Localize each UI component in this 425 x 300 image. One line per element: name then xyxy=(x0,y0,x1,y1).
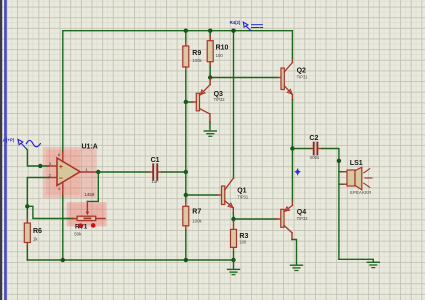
label Q1 xyxy=(237,187,246,194)
svg-text:SPEAKER: SPEAKER xyxy=(350,190,372,195)
label R7 xyxy=(192,209,201,216)
blue marker star on output node xyxy=(294,168,301,176)
resistor R10 xyxy=(207,41,213,62)
transistor Q1 body xyxy=(222,178,234,213)
svg-text:100k: 100k xyxy=(192,58,202,63)
wire R10 bottom to junction xyxy=(209,62,211,78)
label Q3 xyxy=(214,91,223,98)
wire rail right corner down to Q2 collector xyxy=(291,31,293,58)
svg-text:1uF: 1uF xyxy=(151,179,159,184)
wire R3 top stub xyxy=(233,219,235,229)
svg-text:C1: C1 xyxy=(151,157,160,164)
svg-text:100k: 100k xyxy=(192,218,202,223)
label R9 value 100k xyxy=(192,58,202,63)
wire Q3 base stub xyxy=(186,101,197,103)
ground under Q4 xyxy=(291,265,303,270)
ground under LS1 xyxy=(367,262,379,267)
transistor Q4 body xyxy=(281,201,293,240)
svg-text:TIP32: TIP32 xyxy=(297,216,309,221)
wire V+ drop from rail to U1 pin 8 xyxy=(62,31,64,153)
svg-text:2: 2 xyxy=(49,172,51,177)
wire Q3 collector to ground xyxy=(209,122,211,130)
wire R9 top stub xyxy=(185,31,187,46)
resistor R3 xyxy=(231,229,237,247)
wire feedback down to RV1 wiper xyxy=(86,172,99,215)
label Q4 xyxy=(297,209,306,216)
svg-text:R4(2): R4(2) xyxy=(230,20,241,25)
selection highlight around op-amp U1:A xyxy=(43,147,97,198)
junction dot feedback/RV1 branch xyxy=(25,204,29,208)
label LS1 xyxy=(350,160,363,167)
svg-text:Q4: Q4 xyxy=(297,209,306,216)
label Q3 value TIP32 xyxy=(214,97,226,102)
label Q2 value TIP31 xyxy=(297,74,309,79)
svg-text:500u: 500u xyxy=(310,155,319,160)
svg-text:R6: R6 xyxy=(33,228,42,235)
svg-text:1: 1 xyxy=(85,167,87,172)
wire R10 top stub xyxy=(209,31,211,41)
svg-text:100: 100 xyxy=(216,53,224,58)
label U1 pin 1 xyxy=(85,167,87,172)
wire R6 bottom to rail xyxy=(26,243,28,261)
junction dot rail/pin4 xyxy=(61,258,65,262)
wire feedback node jog to RV1 left terminal xyxy=(27,206,77,218)
label R6 xyxy=(33,228,42,235)
junction dot R10/Q3 emitter/Q2 base xyxy=(208,75,212,79)
speaker LS1 xyxy=(347,167,372,190)
svg-text:TIP31: TIP31 xyxy=(297,74,309,79)
svg-text:1458: 1458 xyxy=(84,192,95,197)
wire mid vertical Q3base to R7 xyxy=(185,102,187,206)
junction dot output node / C2 xyxy=(290,146,294,150)
label R3 value 100 xyxy=(239,239,247,244)
wire junction to Q3 emitter xyxy=(209,78,211,85)
svg-text:TIP31: TIP31 xyxy=(237,194,249,199)
wire Q4 collector to ground xyxy=(292,240,297,265)
wire speaker branch to ground xyxy=(339,259,373,261)
wire R9 bottom to Q3 base node xyxy=(185,67,187,102)
wire C1 right to mid node xyxy=(162,171,186,173)
junction dot Q1 emitter / R3 / Q4 base xyxy=(231,217,235,221)
svg-text:R9: R9 xyxy=(192,50,201,57)
wire U1 pin 2 feedback net xyxy=(27,178,57,224)
label Q1 value TIP31 xyxy=(237,194,249,199)
junction dot C1/mid vertical xyxy=(184,170,188,174)
ground under R3 xyxy=(228,260,240,275)
svg-text:R7: R7 xyxy=(192,209,201,216)
svg-text:3: 3 xyxy=(49,161,51,166)
potentiometer RV1 xyxy=(77,216,105,220)
svg-text:LS1: LS1 xyxy=(350,160,363,167)
junction dot rail/R9 xyxy=(184,29,188,33)
svg-text:C2: C2 xyxy=(309,135,318,142)
svg-text:−: − xyxy=(59,173,64,182)
input generator symbol xyxy=(0,138,40,149)
label U1 value 1458 xyxy=(84,192,95,197)
svg-text:Q2: Q2 xyxy=(297,67,306,74)
wire bottom ground rail xyxy=(27,259,233,261)
label U1 pin 8 xyxy=(58,152,60,157)
svg-text:TIP32: TIP32 xyxy=(214,97,226,102)
label U1 pin 2 xyxy=(49,172,51,177)
junction dot output pin / feedback xyxy=(96,170,100,174)
ground under Q3 xyxy=(204,131,216,136)
resistor R7 xyxy=(183,206,189,226)
junction dot R9/Q3 base xyxy=(184,100,188,104)
junction dot rail/probe xyxy=(231,29,235,33)
svg-text:8: 8 xyxy=(58,152,60,157)
junction dot speaker branch xyxy=(337,159,341,163)
junction dot Q1 base / R7 xyxy=(184,193,188,197)
wire rail to Q1 collector (long vertical) xyxy=(233,31,235,179)
label C2 value 500u xyxy=(310,155,319,160)
wire R3 bottom to rail xyxy=(233,247,235,260)
capacitor C2 xyxy=(314,143,322,155)
op-amp U1:A xyxy=(57,153,98,197)
junction dot rail/R10 xyxy=(208,29,212,33)
wire input source to U1 pin 3 xyxy=(27,149,58,166)
label R9 xyxy=(192,50,201,57)
svg-text:1A(+P): 1A(+P) xyxy=(0,138,14,143)
label R7 value 100k xyxy=(192,218,202,223)
svg-text:Q1: Q1 xyxy=(237,187,246,194)
label R3 xyxy=(239,233,248,240)
wire R7 bottom to rail xyxy=(185,226,187,260)
wire LS1 lower pin xyxy=(339,183,347,185)
label U1:A xyxy=(82,143,98,150)
junction dot rail/R7 xyxy=(184,258,188,262)
wire U1 pin 4 to bottom rail xyxy=(62,196,64,260)
wire Q2 base net xyxy=(210,77,281,79)
label R10 xyxy=(216,45,229,52)
label R10 value 100 xyxy=(216,53,224,58)
resistor R6 xyxy=(24,223,30,243)
label Q2 xyxy=(297,67,306,74)
label RV1 xyxy=(75,223,95,230)
label R6 value 1k xyxy=(33,236,38,241)
svg-text:100: 100 xyxy=(239,239,247,244)
resistor R9 xyxy=(183,46,189,67)
svg-text:U1:A: U1:A xyxy=(82,143,98,150)
wire output node to C2 xyxy=(292,148,313,150)
wire Q1 base stub xyxy=(186,194,222,196)
label U1 pin 4 xyxy=(58,186,61,191)
label LS1 value SPEAKER xyxy=(350,190,372,195)
wire top power rail xyxy=(63,30,292,32)
wire LS1 upper pin xyxy=(339,171,347,173)
junction dot on pin3 wire xyxy=(38,164,42,168)
label Q4 value TIP32 xyxy=(297,216,309,221)
voltage probe R4(2) xyxy=(230,20,263,30)
junction dot rail/R3/ground xyxy=(231,258,235,262)
transistor Q2 body xyxy=(281,58,292,100)
label C1 value 1uF xyxy=(151,179,159,184)
label C2 xyxy=(309,135,318,142)
wire output to C1 xyxy=(98,171,152,173)
capacitor C1 xyxy=(153,164,162,179)
transistor Q3 body xyxy=(196,85,210,123)
label C1 xyxy=(151,157,160,164)
wire Q4 base net xyxy=(234,218,281,220)
wire Q2 emitter down to Q4 emitter xyxy=(291,100,293,202)
label U1 pin 3 xyxy=(49,161,51,166)
wire Q1 emitter to junction xyxy=(232,213,234,219)
svg-text:+: + xyxy=(59,164,63,171)
svg-text:50k: 50k xyxy=(74,231,82,236)
label RV1 value 50k xyxy=(74,231,82,236)
selection highlight around potentiometer RV1 xyxy=(67,202,107,227)
svg-text:R10: R10 xyxy=(216,45,229,52)
wire C2 to speaker branch xyxy=(322,149,339,260)
